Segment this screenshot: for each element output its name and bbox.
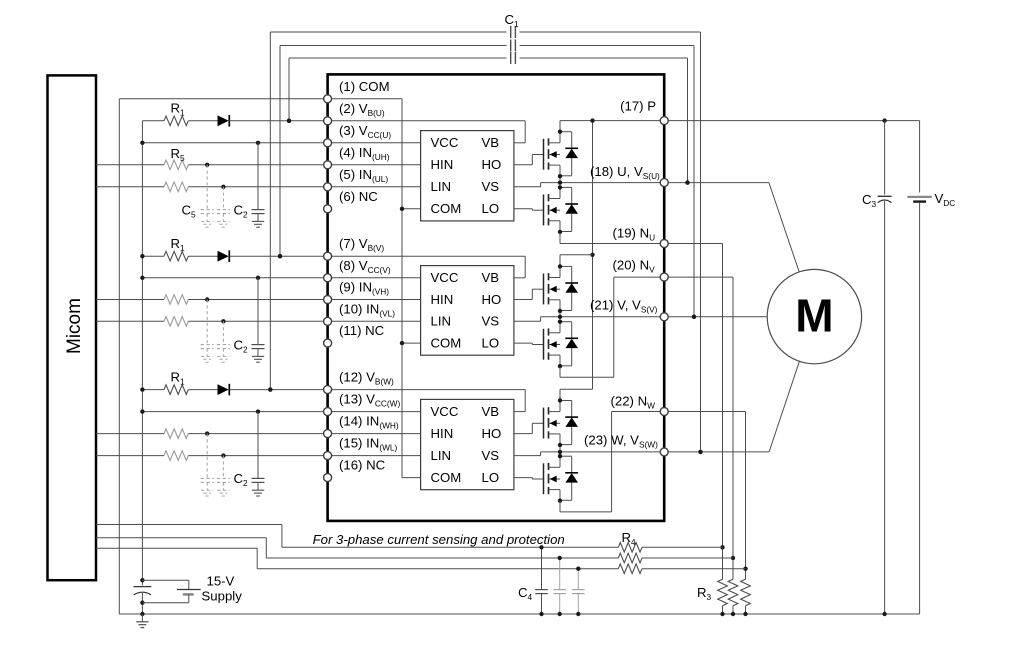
svg-text:LO: LO: [482, 470, 500, 485]
diode body diode (V high): [560, 265, 572, 267]
wire VB(W) driver to pin row: [332, 389, 526, 391]
resistor R5 (IN UH): [96, 164, 164, 166]
transistor Q U low-side MOSFET: [543, 195, 545, 226]
capacitor C2 (VCC(V) decoupling): [257, 278, 259, 345]
wire COM net: pin1 to left bus down to bottom rail: [119, 98, 323, 100]
wire VB(U) driver to pin row: [332, 120, 526, 122]
ground (C2 W): [252, 489, 264, 491]
pin (17) terminal: [660, 117, 668, 125]
svg-text:VCC: VCC: [431, 270, 459, 285]
transistor Q W high-side MOSFET: [543, 408, 545, 439]
capacitor C5 (dashed, IN WL filter): [222, 456, 224, 479]
svg-text:(16) NC: (16) NC: [339, 458, 386, 473]
svg-text:VB: VB: [482, 270, 500, 285]
wire phase output row V inside module: [560, 316, 660, 318]
wire VS(U) to output node: [514, 186, 541, 188]
wire VCC(V) pin to driver: [332, 277, 421, 279]
wire HO(V) to high-side gate: [514, 299, 532, 301]
wire VCC(U) row to pin: [142, 142, 323, 144]
resistor R5 (IN WL): [96, 455, 164, 457]
wire VB(V) row to pin: [229, 255, 323, 257]
wire LO(U) to low-side gate: [514, 208, 532, 210]
resistor R3 (U shunt): [718, 579, 728, 606]
pin (6) terminal: [324, 205, 332, 213]
capacitor electrolytic (15V smoothing): [141, 580, 143, 585]
svg-text:LIN: LIN: [431, 179, 452, 194]
svg-text:LIN: LIN: [431, 448, 452, 463]
svg-text:(11) NC: (11) NC: [339, 323, 385, 338]
wire VCC(W) pin to driver: [332, 411, 421, 413]
svg-text:VS: VS: [482, 179, 500, 194]
svg-text:HO: HO: [482, 292, 502, 307]
capacitor C2 (VCC(U) decoupling): [257, 143, 259, 210]
wire W output to motor: [668, 451, 769, 453]
svg-text:LO: LO: [482, 335, 500, 350]
wire LO(V) to low-side gate: [514, 342, 532, 344]
pin (21) terminal: [660, 313, 668, 321]
wire IN(VH) pin to driver HIN: [332, 299, 421, 301]
wire NW return (W low source to pin22): [559, 501, 561, 512]
wire VB(U) row to pin: [229, 120, 323, 122]
pin (10) terminal: [324, 317, 332, 325]
pin (23) terminal: [660, 448, 668, 456]
svg-text:COM: COM: [431, 470, 462, 485]
wire LO(W) to low-side gate: [514, 477, 532, 479]
svg-text:HIN: HIN: [431, 157, 454, 172]
wire bootstrap link VB(W)-VS(W): [270, 31, 506, 33]
wire IN(WH) pin to driver HIN: [332, 433, 421, 435]
pin (13) terminal: [324, 408, 332, 416]
transistor Q W low-side MOSFET: [543, 463, 545, 494]
wire V output to motor: [668, 316, 767, 318]
pin (19) terminal: [660, 240, 668, 248]
ground (C2 U): [252, 220, 264, 222]
wire P tap to W-phase drain: [560, 388, 593, 390]
wire IN(VL) pin to driver LIN: [332, 320, 421, 322]
svg-text:(1) COM: (1) COM: [339, 79, 390, 94]
op-amp gate-driver IC (V phase): [421, 266, 514, 356]
battery VDC: [907, 196, 931, 198]
wire NW shunt column: [668, 411, 745, 413]
pin (14) terminal: [324, 430, 332, 438]
ground (15V supply): [141, 614, 143, 622]
wire P rail external to VDC: [668, 120, 919, 122]
wire NU return (U low source to pin19): [559, 233, 561, 244]
transistor Q U high-side MOSFET: [543, 139, 545, 170]
svg-text:(19) NU: (19) NU: [613, 225, 656, 242]
wire current-sense line U (Micom to NU): [96, 524, 282, 526]
resistor R4 (U sense): [618, 543, 642, 553]
wire NU shunt column: [668, 243, 722, 245]
diode D (U bootstrap): [218, 115, 229, 126]
resistor R5 (IN VL): [96, 320, 164, 322]
svg-text:Supply: Supply: [202, 589, 243, 604]
pin (4) terminal: [324, 161, 332, 169]
wire bootstrap link VB(V)-VS(V): [280, 45, 507, 47]
diode body diode (W low): [560, 455, 572, 457]
resistor R5 (IN WH): [96, 433, 164, 435]
wire phase output row W inside module: [560, 451, 660, 453]
wire VB(V) driver to pin row: [332, 255, 526, 257]
wire VCC(U) pin to driver: [332, 142, 421, 144]
svg-text:For 3-phase current sensing an: For 3-phase current sensing and protecti…: [313, 532, 565, 547]
wire phase output row U inside module: [560, 182, 660, 184]
pin (16) terminal: [324, 474, 332, 482]
wire current-sense line V (Micom to NV): [96, 537, 266, 539]
resistor R3 (W shunt): [741, 579, 751, 606]
svg-text:(17) P: (17) P: [620, 99, 656, 114]
svg-text:(6) NC: (6) NC: [339, 189, 378, 204]
wire IN(UL) pin to driver LIN: [332, 186, 421, 188]
svg-text:VB: VB: [482, 404, 500, 419]
pin (20) terminal: [660, 273, 668, 281]
wire NV shunt column: [668, 276, 733, 278]
capacitor C4 (U filter): [541, 547, 543, 589]
pin (22) terminal: [660, 408, 668, 416]
svg-text:15-V: 15-V: [207, 574, 235, 589]
ground (C2 V): [252, 355, 264, 357]
battery 15-V supply: [142, 579, 188, 581]
resistor R4 (W sense): [618, 564, 642, 574]
svg-text:COM: COM: [431, 201, 462, 216]
pin (12) terminal: [324, 386, 332, 394]
pin (7) terminal: [324, 252, 332, 260]
wire HO(W) to high-side gate: [514, 433, 532, 435]
diode body diode (U low): [560, 186, 572, 188]
pin (9) terminal: [324, 296, 332, 304]
Micom block: [48, 75, 97, 580]
svg-text:HO: HO: [482, 157, 502, 172]
svg-text:HIN: HIN: [431, 292, 454, 307]
capacitor C5 (dashed, IN VL filter): [222, 321, 224, 344]
diode body diode (V low): [560, 321, 572, 323]
wire COM distribution (pin1 to driver COM pins): [332, 98, 402, 100]
wire P rail (pin17): [559, 120, 561, 122]
capacitor C2 (VCC(W) decoupling): [257, 412, 259, 479]
pin (5) terminal: [324, 183, 332, 191]
pin (8) terminal: [324, 274, 332, 282]
op-amp gate-driver IC (U phase): [421, 131, 514, 221]
capacitor C5 (dashed, IN VH filter): [206, 300, 208, 345]
pin (18) terminal: [660, 179, 668, 187]
resistor R4 (V sense): [618, 553, 642, 563]
wire P tap to V-phase drain: [560, 254, 593, 256]
wire VS(V) to output node: [514, 320, 541, 322]
wire bootstrap link VB(U)-VS(U): [289, 57, 507, 59]
transistor Q V high-side MOSFET: [543, 274, 545, 305]
wire P distribution bus: [592, 121, 594, 390]
wire VS(W) to output node: [514, 455, 541, 457]
wire current-sense line W (Micom to NW): [96, 547, 257, 549]
wire IN(WL) pin to driver LIN: [332, 455, 421, 457]
wire NV return (V low source to pin20): [559, 367, 561, 377]
wire bottom ground rail: [119, 613, 919, 615]
diode body diode (W high): [560, 400, 572, 402]
wire HO(U) to high-side gate: [514, 164, 532, 166]
capacitor C1 (three bootstrap capacitors): [510, 26, 512, 38]
svg-text:LIN: LIN: [431, 314, 452, 329]
svg-text:M: M: [795, 290, 833, 342]
resistor R5 (IN VH): [96, 299, 164, 301]
transistor Q V low-side MOSFET: [543, 329, 545, 360]
op-amp gate-driver IC (W phase): [421, 399, 514, 489]
capacitor C4 (W filter, dashed): [577, 569, 579, 590]
diode body diode (U high): [560, 131, 572, 133]
svg-text:Micom: Micom: [64, 298, 85, 354]
resistor R1 (W bootstrap): [142, 389, 164, 391]
wire VCC(W) row to pin: [142, 411, 323, 413]
wire U output to motor: [668, 182, 769, 184]
diode D (W bootstrap): [218, 384, 229, 395]
resistor R5 (IN UL): [96, 186, 164, 188]
motor M: [767, 269, 861, 363]
capacitor C3 (DC bus): [884, 121, 886, 195]
svg-text:VCC: VCC: [431, 404, 459, 419]
pin (11) terminal: [324, 339, 332, 347]
svg-text:HO: HO: [482, 426, 502, 441]
wire 15V VCC bus: [141, 121, 143, 580]
pin (1) terminal: [324, 95, 332, 103]
svg-text:COM: COM: [431, 335, 462, 350]
svg-text:VB: VB: [482, 135, 500, 150]
pin (2) terminal: [324, 117, 332, 125]
svg-text:(20) NV: (20) NV: [613, 258, 656, 275]
IPM module outline: [328, 74, 665, 521]
diode D (V bootstrap): [218, 251, 229, 262]
capacitor C4 (V filter, dashed): [559, 558, 561, 590]
svg-text:VCC: VCC: [431, 135, 459, 150]
wire VB(W) row to pin: [229, 389, 323, 391]
resistor R3 (V shunt): [728, 579, 738, 606]
svg-text:LO: LO: [482, 201, 500, 216]
pin (15) terminal: [324, 452, 332, 460]
capacitor C5 (dashed, IN UL filter): [222, 187, 224, 210]
wire VCC(V) row to pin: [142, 277, 323, 279]
pin (3) terminal: [324, 139, 332, 147]
svg-text:HIN: HIN: [431, 426, 454, 441]
svg-text:VS: VS: [482, 448, 500, 463]
wire IN(UH) pin to driver HIN: [332, 164, 421, 166]
svg-text:VS: VS: [482, 314, 500, 329]
resistor R1 (V bootstrap): [142, 255, 164, 257]
capacitor C5 (dashed, IN UH filter): [206, 165, 208, 210]
capacitor C5 (dashed, IN WH filter): [206, 434, 208, 479]
resistor R1 (U bootstrap): [142, 120, 164, 122]
